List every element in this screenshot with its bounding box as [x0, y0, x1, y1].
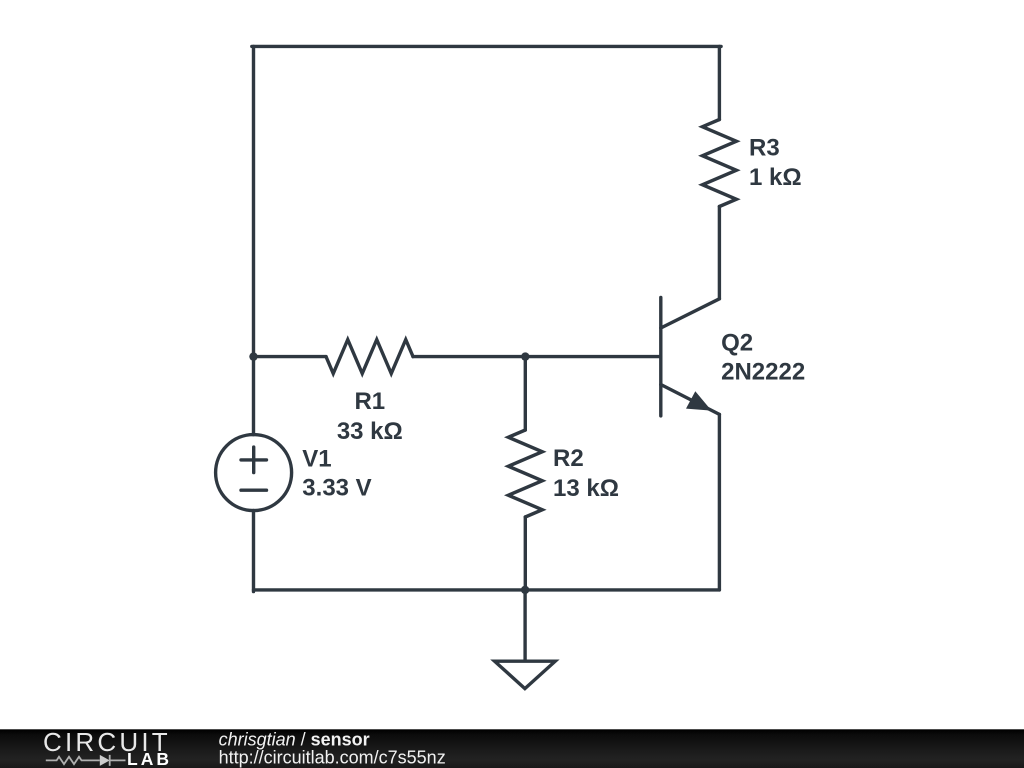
resistor R3 zigzag: [702, 120, 736, 207]
node A junction dot: [249, 352, 257, 360]
svg-text:2N2222: 2N2222: [721, 359, 805, 386]
logo resistor-diode glyph: [46, 755, 126, 766]
resistor R2 zigzag: [508, 430, 542, 517]
svg-text:13 kΩ: 13 kΩ: [553, 475, 619, 502]
svg-text:1 kΩ: 1 kΩ: [749, 164, 802, 191]
svg-text:3.33 V: 3.33 V: [302, 475, 371, 502]
node B junction dot: [521, 352, 529, 360]
ground stem wire: [523, 590, 526, 660]
transistor Q2 collector diagonal: [661, 299, 720, 328]
wire emitter down to bottom-right corner: [718, 414, 721, 590]
wire right-top (top-right corner down to R3): [718, 46, 721, 119]
svg-text:http://circuitlab.com/c7s55nz: http://circuitlab.com/c7s55nz: [219, 747, 446, 767]
svg-text:V1: V1: [302, 445, 331, 472]
wire bottom: [254, 588, 720, 591]
node C junction dot: [521, 586, 529, 594]
svg-text:Q2: Q2: [721, 329, 753, 356]
V1 plus sign: [241, 447, 267, 473]
ground triangle: [495, 661, 556, 688]
wire left-bottom (V1 bottom to bottom-left corner): [252, 511, 255, 592]
wire top: [252, 45, 721, 48]
transistor Q2 emitter arrow: [686, 391, 712, 410]
wire R3 to collector corner: [718, 207, 721, 299]
svg-text:R1: R1: [354, 388, 385, 415]
wire main horizontal left (node A to R1): [254, 355, 327, 358]
wire left-top (V1 top to top-left corner): [252, 46, 255, 434]
wire R2 bottom: [524, 517, 527, 590]
svg-text:LAB: LAB: [127, 749, 172, 768]
voltage source V1 circle: [216, 435, 292, 511]
footer black bar: [0, 729, 1024, 768]
transistor Q2 base bar: [659, 298, 662, 416]
V1 minus sign: [241, 489, 267, 492]
transistor Q2 emitter diagonal: [661, 385, 720, 415]
svg-text:R2: R2: [553, 445, 584, 472]
wire R2 top: [524, 357, 527, 430]
svg-text:33 kΩ: 33 kΩ: [337, 418, 403, 445]
svg-text:R3: R3: [749, 135, 780, 162]
wire main horizontal right (R1 to base): [413, 355, 661, 358]
resistor R1 zigzag: [326, 340, 413, 374]
